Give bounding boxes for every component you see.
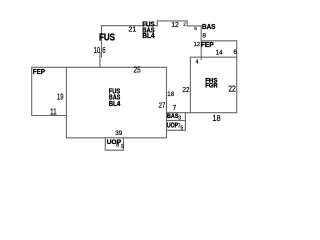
svg-text:UOP: UOP bbox=[107, 139, 122, 146]
svg-text:5: 5 bbox=[121, 144, 124, 150]
svg-text:22: 22 bbox=[228, 84, 236, 94]
svg-text:8: 8 bbox=[116, 142, 119, 148]
wire FHS bottom H6 bbox=[167, 112, 237, 114]
wire main box left edge V9 bbox=[65, 67, 67, 138]
svg-text:18: 18 bbox=[167, 91, 174, 98]
svg-text:27: 27 bbox=[159, 101, 166, 110]
svg-text:7: 7 bbox=[172, 104, 176, 112]
svg-text:25: 25 bbox=[134, 65, 141, 75]
svg-text:12: 12 bbox=[194, 42, 200, 48]
wire FEP-left left edge V8 bbox=[31, 67, 33, 115]
svg-text:5: 5 bbox=[194, 26, 197, 31]
svg-text:5: 5 bbox=[180, 125, 183, 131]
svg-text:14: 14 bbox=[216, 51, 223, 57]
svg-text:6: 6 bbox=[102, 45, 105, 55]
wire FEP-left bottom H8 bbox=[32, 115, 67, 117]
svg-text:FEP: FEP bbox=[33, 67, 45, 76]
svg-text:2: 2 bbox=[183, 22, 186, 28]
svg-text:FUS: FUS bbox=[99, 33, 115, 44]
wire step up V2 bbox=[156, 21, 158, 26]
wire main box bottom H9 bbox=[66, 137, 166, 139]
wire main box right edge V7 bbox=[166, 67, 168, 138]
svg-text:BL4: BL4 bbox=[109, 101, 120, 108]
wire right edge V5 bbox=[236, 41, 238, 113]
wire top outline H1 bbox=[102, 25, 158, 27]
wire BAS small box bottom H11 bbox=[167, 119, 186, 121]
svg-text:8: 8 bbox=[202, 33, 206, 40]
svg-text:BL4: BL4 bbox=[142, 33, 154, 40]
wire H3 (5) bbox=[187, 25, 201, 27]
wire right cluster right edge V12 bbox=[184, 113, 186, 131]
wire UOP bottom-left box bbox=[105, 138, 123, 150]
svg-text:12: 12 bbox=[171, 22, 178, 29]
wire main box / FEP-left top H7 bbox=[32, 66, 167, 68]
wire top H2 (12) bbox=[157, 20, 187, 22]
wire FEP top H4 bbox=[201, 40, 237, 42]
svg-text:22: 22 bbox=[183, 85, 190, 94]
svg-text:11: 11 bbox=[50, 107, 57, 117]
wire UOP small box bottom H12 bbox=[167, 129, 186, 131]
svg-text:3: 3 bbox=[178, 115, 181, 121]
svg-text:10: 10 bbox=[94, 45, 101, 55]
wire top-center vertical V1a bbox=[101, 26, 103, 57]
svg-text:UOP: UOP bbox=[167, 122, 178, 129]
svg-text:FGR: FGR bbox=[205, 83, 218, 90]
svg-text:19: 19 bbox=[57, 91, 64, 101]
svg-text:21: 21 bbox=[129, 26, 137, 33]
svg-text:39: 39 bbox=[115, 130, 122, 137]
svg-text:18: 18 bbox=[212, 113, 221, 123]
wire FHS left edge V6 bbox=[189, 57, 191, 112]
svg-text:4: 4 bbox=[196, 60, 199, 66]
wire V4 left edge of BAS-8 (8) bbox=[200, 26, 202, 60]
svg-text:FEP: FEP bbox=[201, 42, 214, 49]
svg-text:BAS: BAS bbox=[202, 22, 215, 31]
wire FEP bottom / FHS top H5 bbox=[190, 56, 236, 58]
wire top-center vertical V1b jog bbox=[99, 53, 101, 68]
wire step down V3 (2) bbox=[186, 21, 188, 26]
